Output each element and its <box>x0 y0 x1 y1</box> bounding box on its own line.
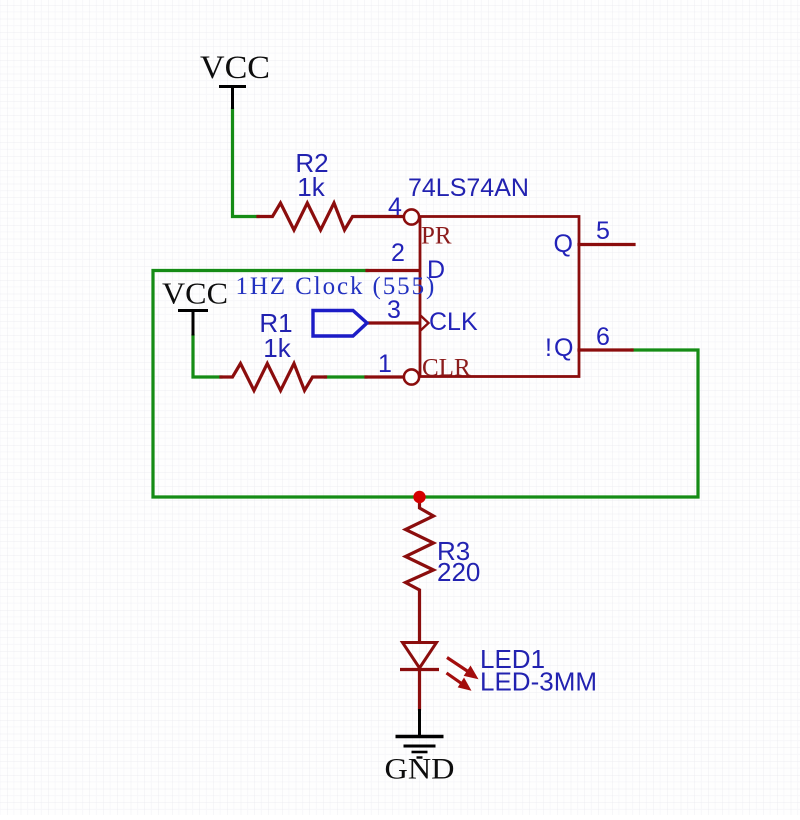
svg-text:6: 6 <box>596 323 610 351</box>
svg-text:GND: GND <box>385 754 455 786</box>
svg-text:4: 4 <box>388 193 402 221</box>
svg-text:CLK: CLK <box>429 308 478 336</box>
svg-text:D: D <box>427 256 445 284</box>
svg-text:1: 1 <box>378 350 392 378</box>
svg-text:2: 2 <box>391 239 405 267</box>
svg-text:1HZ Clock (555): 1HZ Clock (555) <box>236 273 437 300</box>
svg-text:1k: 1k <box>297 172 325 202</box>
svg-text:VCC: VCC <box>162 276 228 311</box>
svg-text:CLR: CLR <box>422 355 471 382</box>
svg-text:3: 3 <box>387 296 401 324</box>
svg-text:LED-3MM: LED-3MM <box>480 667 597 697</box>
svg-text:Q: Q <box>554 230 573 258</box>
svg-text:!Q: !Q <box>545 334 575 362</box>
svg-text:220: 220 <box>437 557 480 587</box>
svg-text:74LS74AN: 74LS74AN <box>408 174 529 202</box>
svg-text:PR: PR <box>421 223 452 250</box>
svg-text:1k: 1k <box>263 333 291 363</box>
svg-text:VCC: VCC <box>200 50 270 86</box>
svg-text:5: 5 <box>596 217 610 245</box>
